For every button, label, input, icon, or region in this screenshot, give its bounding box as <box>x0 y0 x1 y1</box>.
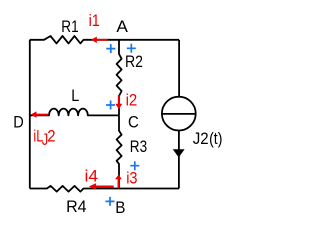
svg-text:B: B <box>115 198 125 217</box>
svg-text:J2: J2 <box>193 129 209 148</box>
svg-text:i3: i3 <box>126 168 137 187</box>
svg-text:2: 2 <box>47 127 55 146</box>
svg-text:i1: i1 <box>89 11 100 30</box>
svg-text:A: A <box>116 17 128 36</box>
svg-text:(t): (t) <box>209 129 222 148</box>
svg-text:i4: i4 <box>85 167 99 186</box>
svg-text:R1: R1 <box>61 17 78 36</box>
svg-text:C: C <box>128 113 139 132</box>
svg-text:D: D <box>13 113 23 132</box>
svg-text:R3: R3 <box>130 137 147 156</box>
svg-text:i2: i2 <box>126 91 138 110</box>
svg-text:R2: R2 <box>125 52 143 71</box>
svg-text:R4: R4 <box>66 197 87 216</box>
svg-text:L: L <box>71 86 79 105</box>
